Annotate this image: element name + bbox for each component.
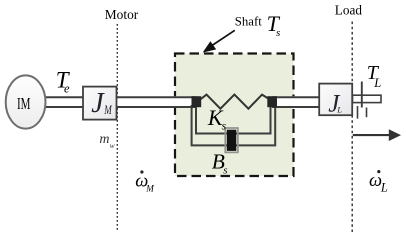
label Bs xyxy=(212,150,228,177)
label omega-dot M xyxy=(135,170,155,194)
svg-text:s: s xyxy=(223,165,227,177)
wire: shaft segment JM to node A xyxy=(116,96,196,108)
wire: shaft segment IM to JM xyxy=(44,96,84,108)
node A junction square xyxy=(192,96,202,107)
svg-text:Motor: Motor xyxy=(105,7,139,22)
wire: damper inner loop xyxy=(196,105,271,134)
load friction mark right xyxy=(366,108,368,118)
svg-text:m: m xyxy=(99,132,109,147)
load friction mark left xyxy=(357,106,359,119)
svg-text:L: L xyxy=(380,180,388,194)
svg-text:Load: Load xyxy=(335,2,363,17)
svg-text:w: w xyxy=(110,141,115,150)
label omega-dot L xyxy=(369,170,388,194)
label JL xyxy=(328,91,342,118)
svg-text:e: e xyxy=(64,82,70,96)
svg-text:s: s xyxy=(222,121,227,133)
label Ks xyxy=(207,105,227,133)
inertia box JL xyxy=(319,84,352,116)
wire: load shaft bar after JL xyxy=(353,95,382,102)
motor boundary dashed line xyxy=(116,24,118,232)
shaft label arrow xyxy=(203,30,235,52)
svg-text:IM: IM xyxy=(17,94,31,113)
load disc line xyxy=(361,82,363,108)
label JM xyxy=(91,88,112,119)
node B junction square xyxy=(267,96,277,107)
spring Ks zigzag xyxy=(199,95,272,109)
wire: damper outer loop xyxy=(192,105,276,145)
svg-text:Shaft: Shaft xyxy=(235,13,262,28)
label mw xyxy=(99,132,114,150)
svg-text:s: s xyxy=(276,27,280,39)
speed direction arrow xyxy=(353,129,401,141)
svg-text:M: M xyxy=(145,185,155,195)
svg-text:L: L xyxy=(373,76,381,90)
svg-text:J: J xyxy=(91,88,105,119)
wire: shaft segment node B to JL xyxy=(272,96,320,108)
svg-text:L: L xyxy=(336,104,342,114)
damper Bs piston xyxy=(225,128,238,152)
inertia box JM xyxy=(83,87,117,120)
svg-text:M: M xyxy=(103,103,112,117)
label TL xyxy=(367,62,381,90)
load boundary dashed line xyxy=(351,22,353,233)
label Ts xyxy=(267,11,281,39)
label Te xyxy=(56,68,71,96)
induction machine IM ellipse xyxy=(6,75,46,128)
shaft compliance dashed box xyxy=(175,54,294,177)
